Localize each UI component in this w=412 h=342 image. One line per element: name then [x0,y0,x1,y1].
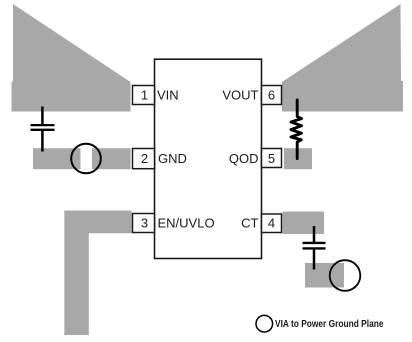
pin 3 box [133,214,155,233]
EN/UVLO trace (L-shape) [64,211,131,336]
legend via symbol [256,315,273,332]
ground pad (bottom-right) [305,263,344,288]
capacitor C2 top lead [313,226,316,242]
via V2 to power ground plane [330,260,361,291]
capacitor C2 plates [303,243,326,249]
capacitor C2 bottom lead [313,250,316,270]
QOD pad (pin 5) [284,148,312,169]
via V1 hole (white strip) [81,147,93,171]
via V1 to power ground plane [71,144,101,174]
capacitor C1 bottom lead [41,131,44,152]
capacitor C1 top lead [41,107,44,125]
pin 5 box [262,149,282,168]
svg-text:EN/UVLO: EN/UVLO [158,216,215,231]
pin 1 box [133,86,155,105]
svg-text:4: 4 [268,216,275,231]
svg-text:5: 5 [268,151,275,166]
VOUT copper plane (top-right pour) [282,4,403,112]
svg-text:6: 6 [268,88,275,103]
pin 2 box [133,149,155,169]
capacitor C1 plates [31,125,55,130]
svg-text:2: 2 [141,151,148,166]
svg-text:1: 1 [141,88,148,103]
svg-text:VIN: VIN [157,88,179,103]
svg-text:GND: GND [158,151,187,166]
GND trace (pin 2 pad strip) [33,148,131,169]
pin 6 box [262,86,282,105]
pin 4 box [262,214,282,233]
svg-text:VIA to Power Ground Plane: VIA to Power Ground Plane [275,319,384,330]
svg-text:QOD: QOD [229,151,259,166]
svg-text:3: 3 [141,216,148,231]
op-amp U1 body (IC outline) [155,59,262,258]
VIN copper plane (top-left pour) [12,4,131,112]
CT pad (pin 4) [283,212,325,235]
resistor R1 [291,100,302,159]
svg-text:CT: CT [241,216,258,231]
svg-text:VOUT: VOUT [222,88,258,103]
